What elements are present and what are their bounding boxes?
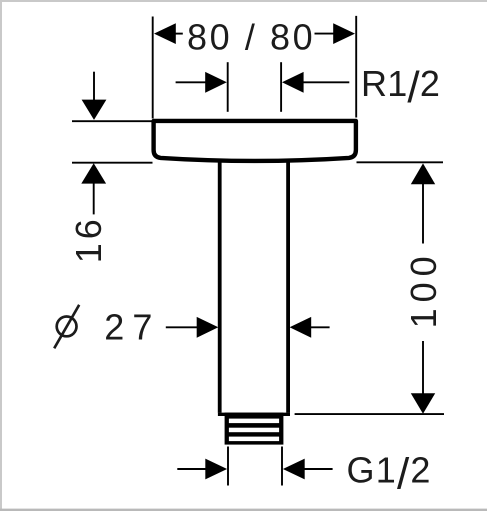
arrow d27 left [166, 326, 198, 328]
frame border bottom [0, 509, 487, 511]
arrow 80/80 right [333, 23, 355, 44]
escutcheon plate [154, 121, 356, 161]
arrow R1/2 right [282, 72, 304, 93]
extension line R1/2 right [280, 62, 282, 112]
arrow R1/2 left [205, 72, 227, 93]
thread stripe 3 [229, 437, 279, 442]
extension line G1/2 right [281, 447, 283, 486]
dimension 100 upper arrow (up) [411, 163, 435, 184]
extension line 80/80 right [355, 16, 357, 118]
thread stripe 1 [229, 419, 279, 424]
ceiling line right (lower) [357, 161, 444, 163]
svg-text:16: 16 [68, 215, 109, 263]
pipe left wall [218, 157, 222, 413]
extension line R1/2 left [227, 62, 229, 112]
thread stripe 2 [229, 428, 279, 433]
arrow 80/80 left [154, 23, 176, 44]
arrow G1/2 left [177, 468, 207, 470]
ceiling line left (upper) [72, 120, 152, 122]
arrow d27 right [290, 317, 312, 338]
arrow 16 top (down) [93, 72, 95, 101]
dimension 100 lower arrow (down) [422, 341, 424, 394]
pipe bottom step bar [218, 413, 290, 416]
tail R1/2 left [176, 81, 206, 83]
threaded nipple G1/2 [225, 413, 284, 445]
tail 80/80 left [175, 33, 183, 35]
svg-text:27: 27 [104, 307, 160, 348]
svg-text:80 / 80: 80 / 80 [187, 16, 315, 57]
pipe right wall [286, 157, 290, 413]
arrow 16 bottom (up) [81, 163, 106, 183]
svg-text:100: 100 [403, 250, 444, 328]
ceiling line left (lower) [72, 162, 153, 164]
extension line G1/2 left [227, 447, 229, 486]
frame border left [0, 0, 2, 510]
tail 80/80 right [315, 33, 335, 35]
tail R1/2 right [303, 81, 349, 83]
diameter symbol [57, 317, 77, 337]
extension line 80/80 left [152, 17, 154, 119]
arrow G1/2 right [283, 459, 305, 480]
frame border top [0, 0, 487, 2]
pipe end reference line [295, 413, 444, 415]
